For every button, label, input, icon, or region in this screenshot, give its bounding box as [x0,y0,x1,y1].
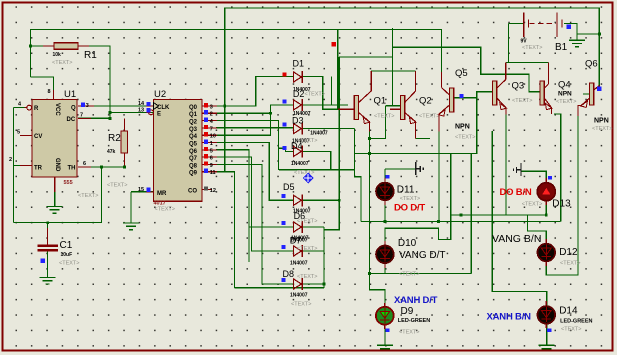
svg-text:8: 8 [48,89,51,95]
LED D14 [538,301,593,333]
diode D2 [282,89,325,117]
wire D14 gnd [546,324,548,345]
wire D12 bottom to Q6 emitter [546,116,578,275]
wire C1 branch [47,223,49,241]
svg-text:9V: 9V [521,39,528,45]
diode D7 [282,236,318,267]
wire Q4 emitter down [554,114,561,222]
wire U1 gnd [54,190,56,206]
svg-text:CO: CO [188,188,197,194]
wire Q2 out to D4 [216,121,294,152]
transistor Q3 [480,63,532,115]
svg-text:<TEXT>: <TEXT> [419,114,439,120]
transistor Q6 [578,59,612,133]
svg-text:5: 5 [17,130,20,136]
LED D9 (green, on) [376,303,430,336]
svg-text:<TEXT>: <TEXT> [297,138,317,144]
svg-text:VCC: VCC [54,103,60,116]
wire lower fan link [235,287,325,289]
wire Q8 out to D8 [216,164,294,284]
wire top rail y8 [225,8,600,172]
svg-text:D2: D2 [293,89,305,99]
ground under U2 MR [123,223,139,230]
svg-text:DO D/T: DO D/T [394,203,425,214]
wire D3 cathode [303,128,355,130]
svg-text:Q1: Q1 [374,96,387,107]
svg-text:<TEXT>: <TEXT> [400,196,420,202]
svg-text:Q6: Q6 [585,59,598,70]
diode D1 [282,59,310,94]
svg-text:15: 15 [138,187,144,193]
wire D9 bottom [384,325,386,345]
svg-text:<TEXT>: <TEXT> [455,135,475,141]
diode D5 [282,182,311,215]
svg-text:<TEXT>: <TEXT> [297,219,317,225]
svg-text:NPN: NPN [594,118,609,125]
svg-text:<TEXT>: <TEXT> [374,114,394,120]
wire D14 feed [492,131,547,306]
wire mid rail y169.8 [279,169,355,171]
wire R2 leads [123,118,125,131]
diodes D1-D8 column [282,59,328,308]
wire U2 pin stubs right [202,105,217,107]
svg-text:1N4007: 1N4007 [290,293,308,299]
wire D10 box right [470,153,472,273]
svg-text:D14: D14 [559,306,578,317]
svg-text:Q8: Q8 [189,163,198,169]
svg-text:11: 11 [210,170,216,176]
svg-text:1N4007: 1N4007 [291,161,309,167]
wire Q2 emitter jog [369,106,385,139]
svg-text:<TEXT>: <TEXT> [297,274,317,280]
svg-text:NPN: NPN [455,124,470,131]
svg-text:1: 1 [210,141,213,147]
wire C1 lead [47,228,49,245]
svg-text:TH: TH [68,166,76,172]
wire D13 cathode rail [451,201,547,215]
svg-text:<TEXT>: <TEXT> [107,183,127,189]
svg-text:R: R [34,106,39,112]
LEDs [376,175,593,336]
wire Q1 collector rail [371,28,392,71]
wire U1 Q to U2 CLK [78,105,154,107]
wire U1 TR pin2 [14,165,33,167]
transistor Q5 (mirrored) [439,68,477,141]
wire U2 MR to ground [131,191,154,193]
wire Q9 out [216,172,235,288]
wire D10 box top [385,228,439,245]
wire right terminal to D13 [522,171,547,183]
svg-text:7: 7 [80,113,83,119]
wire D7 cathode [303,250,324,252]
ground under D14 [539,345,555,348]
svg-text:<TEXT>: <TEXT> [522,202,542,208]
svg-text:1N4007: 1N4007 [310,131,328,137]
transistor Q2 [390,71,439,139]
wire U1 pin4 reset [13,108,15,223]
ground under U1 [47,207,63,214]
svg-text:MR: MR [157,191,167,197]
svg-text:DO B/N: DO B/N [500,187,532,198]
svg-text:Q4: Q4 [558,80,571,91]
svg-text:10k: 10k [53,52,62,58]
ground under D9 [377,345,393,348]
wire collector rail y62.5 [506,62,549,64]
LED D12 [538,239,581,267]
diode D4 [282,138,317,176]
svg-text:3: 3 [210,105,213,111]
svg-text:Q5: Q5 [189,142,198,148]
node junction dots [29,33,601,286]
svg-text:Q7: Q7 [189,156,198,162]
svg-text:LED-GREEN: LED-GREEN [398,318,430,324]
wire U1 pin8 vcc [30,77,53,100]
wire battery minus down [508,23,510,62]
wire E row y112.4 [110,111,154,113]
svg-text:Q3: Q3 [189,127,198,133]
svg-text:Q9: Q9 [189,171,198,177]
wire top link D5 net [339,56,392,58]
svg-text:XANH D/T: XANH D/T [394,295,438,306]
svg-text:9: 9 [210,163,213,169]
wire D4 cathode [303,151,331,169]
wire D2 cathode [303,104,348,106]
svg-text:<TEXT>: <TEXT> [399,330,419,336]
wire D3 down stair [355,129,362,222]
svg-text:D13: D13 [552,199,571,210]
wire Q1 emitter long down [369,131,385,307]
wire battery right to ground [564,23,577,39]
svg-text:1N4007: 1N4007 [290,261,308,267]
svg-text:D12: D12 [559,247,578,258]
svg-text:VANG D/T: VANG D/T [399,250,445,261]
svg-text:DC: DC [67,117,76,123]
svg-text:13: 13 [138,108,144,114]
svg-text:Q3: Q3 [512,81,525,92]
transistor Q4 [529,63,576,115]
wire Q2 emitter right [416,138,430,140]
svg-text:<TEXT>: <TEXT> [294,170,314,176]
svg-text:6: 6 [210,156,213,162]
svg-text:Q6: Q6 [189,149,198,155]
svg-text:D11: D11 [397,185,415,196]
svg-text:10uF: 10uF [61,252,73,258]
svg-text:R2: R2 [108,133,121,144]
svg-text:<TEXT>: <TEXT> [155,207,175,213]
svg-text:Q0: Q0 [189,105,198,111]
resistor R1 [52,43,97,66]
svg-text:10: 10 [210,134,216,140]
svg-text:<TEXT>: <TEXT> [297,246,317,252]
battery B1 [521,13,572,53]
wire Q1 base drop [337,29,339,109]
svg-text:14: 14 [138,101,145,107]
diode D3 [282,116,328,145]
svg-text:47k: 47k [107,149,116,155]
svg-text:XANH B/N: XANH B/N [487,312,532,323]
wire Q5 out to D5 [216,143,294,201]
svg-text:<TEXT>: <TEXT> [522,45,542,51]
wire D5 cathode [303,199,339,201]
svg-text:Q4: Q4 [189,134,198,140]
svg-text:555: 555 [64,180,73,186]
ground under C1 [40,277,56,284]
wire Q6 out to D6 [216,150,249,262]
svg-text:2: 2 [210,112,213,118]
svg-text:Q5: Q5 [455,68,468,79]
svg-text:<TEXT>: <TEXT> [561,327,581,333]
wire bottom loop y222.6 [14,167,102,223]
wire Q5 emitter down [438,131,440,222]
svg-text:D3: D3 [292,116,304,126]
svg-text:12: 12 [210,188,216,194]
svg-text:5: 5 [210,148,213,154]
wire D11 bottom rail [384,201,386,222]
diode D6 [282,211,318,242]
power terminal right [513,163,521,176]
LED D11 [376,175,420,205]
wire Q1 out [216,112,271,114]
wire TH row [78,166,124,168]
wire DC pin7 [78,117,110,119]
svg-text:Q1: Q1 [189,112,198,118]
svg-text:D10: D10 [398,238,417,249]
counter U2 4017 [138,89,202,213]
svg-text:<TEXT>: <TEXT> [305,92,325,98]
transistors [338,59,613,141]
wire D5 or column [324,57,339,230]
svg-text:GND: GND [54,158,60,172]
svg-text:R1: R1 [84,50,97,61]
svg-text:D8: D8 [283,269,295,279]
resistor R2 [107,131,128,189]
svg-text:Q: Q [71,106,76,112]
svg-text:D5: D5 [283,182,295,192]
wire jog d10 box [439,153,451,239]
svg-text:<TEXT>: <TEXT> [560,261,580,267]
wire C1 to ground [47,252,49,278]
svg-text:2: 2 [9,157,12,163]
svg-text:<TEXT>: <TEXT> [52,60,72,66]
svg-text:Q2: Q2 [189,120,198,126]
cursor icon [303,173,314,184]
LED D10 [376,238,419,278]
svg-text:1N4007: 1N4007 [290,238,308,244]
op-amp U1 555 timer [9,89,98,199]
power terminal left [416,162,424,175]
svg-text:D1: D1 [293,59,305,69]
wire D2 to Q2 base [386,105,403,107]
wire D8 cathode [303,283,324,285]
svg-text:U2: U2 [154,89,166,100]
wire R1 leads [43,45,54,47]
wire D5-D8 or column [323,227,325,288]
svg-text:6: 6 [83,161,86,167]
transistor Q1 [338,71,395,132]
ground B1 [569,40,585,47]
wire R1 left lead [30,45,54,47]
svg-text:3: 3 [86,103,89,109]
wire D11 top to terminal [385,168,415,170]
svg-text:CV: CV [34,134,42,140]
svg-text:CLK: CLK [157,105,170,111]
svg-text:VANG B/N: VANG B/N [492,233,541,245]
wire battery left [509,22,524,24]
wire q3 base rail y47.3 [393,47,540,92]
svg-text:NPN: NPN [558,91,572,98]
wire D1-D2 or [331,77,333,105]
wire U2 pin stubs left [146,105,154,107]
wire D6 cathode [303,226,324,228]
svg-text:D9: D9 [401,306,414,317]
wire q6 base stub [583,93,589,95]
svg-text:C1: C1 [60,240,73,251]
wire long y153.8 [355,92,493,154]
wire Q4 out to D2 [216,105,294,135]
node U1.Q state [81,103,85,107]
LED D13 (red, on) [522,176,571,210]
pin numbers U2 right with state [204,103,216,194]
svg-text:U1: U1 [64,89,76,100]
svg-text:<TEXT>: <TEXT> [78,193,98,199]
svg-text:E: E [157,112,161,118]
svg-text:<TEXT>: <TEXT> [512,98,532,104]
svg-text:<TEXT>: <TEXT> [556,99,576,105]
diode D8 [282,269,318,308]
svg-text:<TEXT>: <TEXT> [59,261,79,267]
svg-text:<TEXT>: <TEXT> [291,302,311,308]
wire Q3 out to D3 [216,127,294,129]
wire Q0 out to D1 [216,77,294,107]
svg-text:7: 7 [210,126,213,132]
wire Q2 v extend [278,148,280,170]
svg-text:LED-GREEN: LED-GREEN [560,318,592,324]
svg-text:<TEXT>: <TEXT> [592,126,612,132]
wire D10 bottom [384,264,386,274]
wire R1 right to DC [78,46,110,118]
wire D12 top [528,215,547,244]
wire Q7 out to D7 [216,157,294,251]
capacitor C1 [38,240,80,267]
svg-text:TR: TR [34,166,43,172]
wire vcc rail y29.4 [30,29,441,77]
node Q1 base state [332,42,337,47]
wire U1 pin stubs [25,107,28,109]
wire Q3 emitter down [505,114,507,215]
svg-text:B1: B1 [555,42,568,53]
svg-text:<TEXT>: <TEXT> [399,272,419,278]
svg-text:Q2: Q2 [419,96,432,107]
wire D1 cathode to Q1 base [303,77,354,110]
